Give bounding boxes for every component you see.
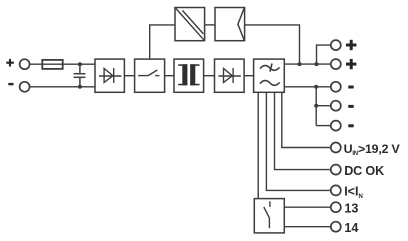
label + terminal 1 bbox=[346, 40, 356, 50]
wire Uin sense from output box bbox=[282, 92, 331, 147]
fuse F1 bbox=[42, 60, 62, 69]
wire - output rail bbox=[284, 86, 331, 88]
relay contact symbol bbox=[264, 201, 270, 228]
wire relay to terminal 14 bbox=[284, 226, 331, 228]
wire + output rail bbox=[284, 63, 331, 65]
wire I<In from output box bbox=[266, 92, 331, 190]
wire boost to decoupling box bbox=[205, 24, 215, 26]
wire + branch up to terminal 1 bbox=[317, 45, 331, 64]
transformer T1 box bbox=[174, 59, 204, 92]
label - terminal 5 bbox=[348, 124, 353, 127]
terminal circle output + 2 bbox=[331, 59, 341, 69]
svg-text:I<IN: I<IN bbox=[344, 185, 363, 200]
wire DC OK from output box bbox=[275, 92, 331, 169]
relay K1 box bbox=[254, 199, 284, 233]
wire switch to transformer bbox=[165, 75, 174, 77]
wire - input rail bbox=[30, 86, 95, 88]
node junction bottom of capacitor bbox=[78, 85, 82, 89]
decoupling stage box bbox=[215, 8, 245, 41]
bridge rectifier U1 box bbox=[95, 59, 124, 92]
wire - distribution down bbox=[315, 87, 317, 126]
node junction - branch 2 bbox=[314, 104, 318, 108]
switch contact symbol bbox=[138, 70, 159, 76]
node junction top of capacitor bbox=[78, 62, 82, 66]
label - terminal 4 bbox=[348, 105, 353, 108]
node junction + branch bbox=[315, 62, 319, 66]
output filter ripple symbol top sine with bar bbox=[260, 64, 280, 72]
switch stage U2 box bbox=[135, 59, 165, 92]
wire transformer to output diode bbox=[204, 75, 215, 77]
wire + input rail bbox=[30, 63, 95, 65]
svg-text:14: 14 bbox=[344, 221, 358, 235]
wire from switch box top to boost converter bbox=[150, 25, 175, 59]
wire diode to output filter bbox=[244, 75, 254, 77]
terminal circle - input bbox=[20, 82, 30, 92]
transformer T1 winding symbol bbox=[178, 64, 199, 85]
wire - branch to terminal 4 bbox=[316, 105, 331, 107]
terminal circle output - 1 bbox=[331, 82, 341, 92]
output filter sine symbol bottom bbox=[260, 81, 280, 86]
boost converter box with diagonal bbox=[175, 8, 205, 41]
wire to relay coil bbox=[257, 92, 259, 198]
output filter U3 box bbox=[254, 59, 285, 92]
node junction - branch bbox=[314, 85, 318, 89]
wire - branch to terminal 5 bbox=[316, 125, 331, 127]
output diode D1 symbol bbox=[218, 68, 240, 83]
boost converter diagonal lines bbox=[176, 8, 205, 40]
svg-text:DC OK: DC OK bbox=[344, 164, 384, 178]
node junction boost join bbox=[298, 62, 302, 66]
label + input bbox=[6, 59, 14, 67]
label - input bbox=[8, 83, 13, 85]
terminal circle output - 3 bbox=[331, 121, 341, 131]
label + terminal 2 bbox=[346, 59, 356, 69]
wire relay to terminal 13 bbox=[284, 206, 331, 208]
capacitor C1 bbox=[74, 64, 86, 87]
terminal circle 13 bbox=[331, 202, 341, 212]
terminal circle output - 2 bbox=[331, 101, 341, 111]
terminal circle I<In signal bbox=[331, 185, 341, 195]
wire decoupling box to plus rail bbox=[245, 25, 300, 64]
terminal circle DC OK signal bbox=[331, 165, 341, 175]
wire rectifier to switch bbox=[124, 75, 134, 77]
label - terminal 3 bbox=[348, 86, 353, 89]
svg-text:13: 13 bbox=[344, 201, 358, 215]
terminal circle + input bbox=[20, 59, 30, 69]
output diode D1 box bbox=[215, 59, 245, 92]
terminal circle output + 1 bbox=[331, 40, 341, 50]
decoupling chevron symbol bbox=[238, 8, 244, 41]
bridge rectifier U1 diode symbol bbox=[99, 68, 121, 83]
svg-text:UIN>19,2 V: UIN>19,2 V bbox=[344, 142, 401, 157]
terminal circle 14 bbox=[331, 222, 341, 232]
terminal circle Uin signal bbox=[331, 143, 341, 153]
